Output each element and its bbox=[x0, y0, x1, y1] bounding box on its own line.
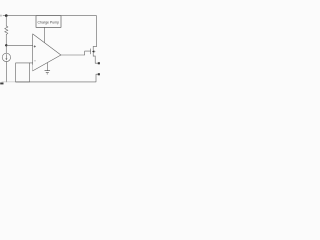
wire from node A down to resistor bbox=[5, 16, 7, 27]
svg-text:Charge Pump: Charge Pump bbox=[37, 21, 59, 25]
pin P0 left edge pad top rail bbox=[0, 15, 2, 17]
box B1 sense block bbox=[16, 63, 30, 82]
wire resistor to current source bbox=[5, 34, 7, 53]
transistor Q1 body stub with arrow bbox=[94, 51, 95, 53]
op-amp U1 bbox=[33, 34, 61, 71]
op-amp input mark + bbox=[34, 46, 36, 48]
wire top rail VIN with right-side drop to transistor drain bbox=[3, 16, 96, 47]
wire box to op-amp inverting input bbox=[30, 62, 33, 64]
wire op-amp output to transistor gate bbox=[61, 51, 91, 55]
transistor Q1 source stub bbox=[93, 55, 95, 57]
op-amp input mark - bbox=[34, 60, 36, 62]
charge pump box U2 bbox=[36, 16, 61, 28]
wire faint bottom rail left segment bbox=[2, 81, 16, 83]
ground bbox=[45, 71, 50, 74]
pin P3 right edge pad bottom bbox=[98, 73, 100, 75]
node A junction dot on top rail bbox=[5, 14, 8, 17]
transistor Q1 gate bar bbox=[90, 49, 92, 54]
pin P2 right edge pad source bbox=[98, 62, 100, 64]
transistor Q1 channel bar bbox=[92, 47, 94, 57]
resistor R1 bbox=[5, 26, 8, 35]
wire node B to op-amp noninverting input bbox=[6, 44, 32, 46]
transistor Q1 drain stub bbox=[93, 46, 96, 48]
wire op-amp V- pin to ground bbox=[46, 63, 48, 71]
wire fade artifact on op-amp lower left edge bbox=[32, 65, 34, 71]
wire charge pump to op-amp top edge bbox=[43, 27, 45, 42]
wire bottom rail with right-side rise to pin bbox=[16, 74, 99, 82]
wire current source to bottom rail bbox=[5, 62, 7, 82]
pin P1 left edge pad bbox=[0, 83, 3, 85]
node B junction dot at op-amp input tap bbox=[5, 44, 7, 46]
current source I1 bbox=[2, 53, 10, 61]
wire transistor source to right pin bbox=[95, 56, 98, 63]
